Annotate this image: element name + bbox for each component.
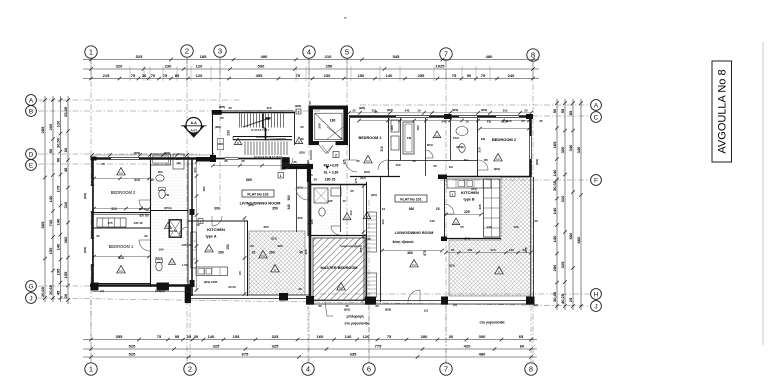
svg-text:20: 20 — [534, 219, 538, 223]
flat 102 label box — [242, 190, 274, 197]
column bottom x188 — [185, 284, 191, 303]
bathtub left flat — [151, 154, 171, 165]
svg-text:360: 360 — [409, 207, 415, 211]
svg-text:12 13 14 15 16 17 18 19: 12 13 14 15 16 17 18 19 — [254, 155, 283, 159]
svg-text:20: 20 — [318, 304, 322, 308]
svg-text:225: 225 — [464, 210, 470, 214]
svg-text:(A3)(2): (A3)(2) — [155, 289, 165, 293]
svg-text:280: 280 — [421, 334, 428, 339]
grid line row C right — [360, 115, 590, 117]
boxed num 1 living — [278, 173, 284, 179]
svg-text:2: 2 — [335, 153, 337, 157]
svg-text:675: 675 — [242, 351, 249, 356]
svg-text:(W2): (W2) — [134, 151, 141, 155]
svg-text:310: 310 — [503, 109, 508, 113]
svg-text:60: 60 — [250, 244, 254, 248]
door arc bedroom2 right — [478, 160, 488, 170]
svg-text:A: A — [29, 98, 34, 105]
svg-text:25: 25 — [187, 334, 192, 339]
kitchen A sink — [198, 269, 205, 275]
svg-text:(D8): (D8) — [299, 151, 304, 155]
svg-text:525: 525 — [136, 54, 143, 59]
svg-text:20: 20 — [63, 293, 68, 298]
svg-text:M: M — [237, 141, 239, 145]
door arc master — [355, 237, 366, 248]
wall master top bath — [311, 184, 367, 186]
svg-text:(D3): (D3) — [449, 264, 454, 268]
svg-text:25: 25 — [224, 159, 228, 163]
svg-text:30: 30 — [449, 334, 454, 339]
wall living102 right — [307, 160, 309, 236]
svg-text:25: 25 — [309, 173, 313, 177]
svg-text:35: 35 — [293, 160, 297, 164]
svg-text:MASTER BEDROOM: MASTER BEDROOM — [321, 266, 358, 270]
svg-text:25: 25 — [352, 109, 356, 113]
kitchen B cabinet strip — [484, 179, 500, 237]
svg-text:M: M — [366, 215, 368, 219]
bath tiles right flat — [427, 119, 450, 159]
svg-text:(D2): (D2) — [360, 176, 365, 180]
door arc bedroom1 right — [378, 160, 388, 170]
wall living101 bottom zone — [380, 301, 444, 303]
column left flat bottom-left — [91, 283, 99, 291]
grid circle 8 bottom — [525, 363, 537, 375]
bottom extension lines — [91, 300, 531, 362]
svg-text:(D3): (D3) — [271, 237, 276, 241]
svg-text:7: 7 — [444, 365, 448, 374]
svg-text:25: 25 — [356, 159, 360, 163]
veranda right edge — [533, 177, 535, 302]
svg-text:215: 215 — [103, 73, 110, 78]
door arc bedroom2 left — [139, 200, 150, 211]
grid circle F right — [591, 175, 602, 186]
interior dim chain veranda right horizontal — [444, 248, 533, 254]
section marker A-A — [181, 118, 207, 138]
svg-text:θέση τζακιού: θέση τζακιού — [392, 240, 413, 244]
svg-text:στο γυψοσανίδα: στο γυψοσανίδα — [479, 321, 504, 325]
svg-text:120: 120 — [381, 219, 385, 224]
wall corridor x380 — [380, 176, 382, 302]
grid line row F right — [440, 179, 590, 181]
bottom wall middle section — [191, 294, 311, 296]
wall bath column left — [187, 156, 189, 287]
svg-text:(W5): (W5) — [219, 105, 226, 109]
svg-text:SL + 2,60: SL + 2,60 — [324, 170, 339, 174]
svg-text:25: 25 — [568, 297, 573, 302]
svg-text:20: 20 — [367, 237, 371, 241]
wall left flat bottom — [90, 284, 192, 286]
wall right flat top — [349, 115, 531, 118]
svg-text:140: 140 — [552, 235, 557, 242]
interior dims scatter — [100, 101, 543, 308]
svg-text:(D5 16): (D5 16) — [140, 214, 149, 218]
section cut line — [262, 114, 264, 129]
svg-text:325: 325 — [560, 261, 565, 268]
svg-text:175: 175 — [354, 178, 358, 183]
wall bedroom divider left flat — [92, 212, 150, 214]
top extension line col 5 — [346, 58, 348, 80]
column bottom x526 — [526, 297, 535, 305]
svg-text:1025: 1025 — [436, 63, 446, 68]
svg-text:60: 60 — [520, 343, 525, 348]
grid line column 6 — [368, 200, 370, 363]
wall vertical x150 left flat — [150, 158, 152, 287]
svg-text:KA: KA — [496, 157, 500, 161]
master bedroom hatch — [313, 238, 365, 300]
svg-text:335: 335 — [350, 351, 357, 356]
svg-text:145: 145 — [310, 219, 314, 224]
boxed num 3 stairs — [296, 109, 301, 114]
svg-text:140: 140 — [55, 218, 60, 225]
grid line column 8 — [532, 61, 534, 363]
svg-text:135 16: 135 16 — [181, 243, 191, 247]
svg-text:15: 15 — [196, 223, 200, 227]
svg-text:180: 180 — [330, 118, 336, 122]
svg-text:155: 155 — [48, 247, 53, 254]
svg-text:95: 95 — [175, 334, 180, 339]
svg-text:180 25: 180 25 — [325, 177, 336, 181]
svg-text:25,45: 25,45 — [63, 106, 68, 117]
svg-text:AVGOULLA No 8: AVGOULLA No 8 — [717, 69, 729, 153]
svg-text:30,35: 30,35 — [552, 180, 557, 191]
top extension line col 3 — [219, 57, 221, 80]
svg-text:260: 260 — [218, 251, 224, 255]
grid circle A left — [26, 95, 37, 106]
svg-text:310: 310 — [111, 207, 117, 211]
svg-text:KA: KA — [435, 135, 439, 138]
grid circle H right — [591, 289, 602, 300]
svg-text:300: 300 — [214, 207, 220, 211]
svg-text:20,65: 20,65 — [48, 284, 53, 295]
flat 101 label box — [395, 195, 427, 202]
door arc kitchen A — [212, 216, 222, 226]
svg-text:KA: KA — [345, 216, 349, 220]
bath tiles left flat — [151, 170, 187, 210]
svg-text:25: 25 — [350, 189, 354, 193]
svg-text:315: 315 — [266, 106, 271, 110]
svg-text:310: 310 — [63, 201, 68, 208]
window gap right top wall 1 — [396, 116, 429, 118]
svg-text:(D2): (D2) — [297, 186, 302, 190]
svg-text:135 16: 135 16 — [133, 221, 143, 225]
svg-text:455: 455 — [256, 73, 263, 78]
bottom wall right section — [311, 300, 534, 302]
svg-text:490: 490 — [261, 54, 268, 59]
left dimension chain 2 — [48, 96, 55, 302]
svg-text:KA S: KA S — [155, 256, 162, 260]
svg-text:FLAT No 102: FLAT No 102 — [247, 192, 268, 196]
wall master right — [366, 236, 368, 302]
wall vertical x192 — [191, 158, 193, 296]
grid circle 2 top — [181, 45, 193, 57]
triangle KA bath right — [433, 131, 441, 137]
svg-text:(W2): (W2) — [481, 108, 488, 112]
svg-text:(W2): (W2) — [385, 308, 392, 312]
svg-text:(W6): (W6) — [215, 125, 221, 129]
svg-text:285: 285 — [277, 244, 282, 248]
top extension line col 7 — [445, 60, 447, 80]
svg-text:BEDROOM 1: BEDROOM 1 — [109, 244, 134, 249]
svg-text:660: 660 — [568, 232, 573, 239]
grid circle 5 top — [341, 46, 353, 58]
wall bath partition 4 — [477, 118, 479, 176]
svg-text:240: 240 — [441, 120, 446, 124]
top dimension row 3 — [83, 73, 539, 80]
triangle KA bedroom1 right — [364, 156, 373, 163]
triangle KA living 101 — [410, 260, 419, 267]
grid line row J left — [38, 298, 590, 306]
wall kitchen B bottom — [444, 238, 501, 240]
triangle KA master — [337, 283, 346, 290]
svg-text:20: 20 — [308, 101, 312, 105]
svg-text:85: 85 — [175, 73, 180, 78]
svg-text:350: 350 — [272, 207, 278, 211]
svg-text:255: 255 — [418, 73, 425, 78]
svg-text:(W1): (W1) — [83, 193, 87, 199]
svg-text:60: 60 — [238, 271, 242, 275]
svg-text:515: 515 — [490, 248, 495, 252]
svg-text:30: 30 — [194, 334, 199, 339]
svg-text:120: 120 — [176, 162, 181, 165]
svg-text:1295: 1295 — [211, 280, 218, 284]
column kitchen B bottom — [441, 237, 447, 242]
svg-text:KA: KA — [412, 263, 416, 267]
svg-text:60: 60 — [63, 147, 68, 152]
svg-text:LIVING/DINING ROOM: LIVING/DINING ROOM — [240, 201, 281, 206]
triangle KA bath left2 — [169, 258, 176, 264]
stair arrow — [243, 118, 270, 127]
grid circle B left — [26, 106, 37, 117]
column right flat top mid — [444, 114, 452, 119]
svg-text:(D2): (D2) — [364, 170, 370, 174]
svg-text:K: K — [498, 270, 500, 274]
svg-text:100: 100 — [395, 163, 400, 167]
wall master left — [309, 182, 312, 302]
svg-text:type B: type B — [464, 198, 475, 202]
svg-text:75: 75 — [481, 73, 486, 78]
svg-text:525: 525 — [129, 343, 136, 348]
grid line column 1 — [90, 58, 92, 363]
svg-text:KITCHEN: KITCHEN — [207, 227, 225, 232]
wall bedroom2 right bottom — [438, 176, 531, 178]
svg-text:360: 360 — [287, 195, 291, 201]
wall stairs left — [212, 112, 214, 158]
svg-text:LFT: LFT — [176, 158, 181, 161]
svg-text:325: 325 — [304, 249, 308, 254]
wall master bath divider — [340, 184, 342, 232]
svg-text:A-A: A-A — [191, 121, 198, 125]
svg-text:45: 45 — [63, 167, 68, 172]
svg-text:D: D — [29, 152, 34, 159]
triangle K veranda right — [495, 267, 504, 274]
bottom dimension row 3 — [83, 351, 537, 358]
column bottom x365 — [365, 297, 376, 305]
svg-text:230: 230 — [227, 130, 231, 136]
svg-text:11 10 9 8 7 6 5 4: 11 10 9 8 7 6 5 4 — [251, 129, 269, 132]
grid circle 7 bottom — [440, 363, 452, 375]
svg-text:30: 30 — [298, 287, 302, 291]
door arc veranda 101 — [408, 290, 420, 302]
svg-text:100: 100 — [349, 210, 353, 215]
svg-text:(W1): (W1) — [535, 159, 539, 165]
svg-text:BEDROOM 2: BEDROOM 2 — [111, 190, 136, 195]
svg-text:545: 545 — [393, 54, 400, 59]
svg-text:(D6): (D6) — [248, 203, 253, 207]
svg-text:type A: type A — [206, 235, 217, 239]
svg-text:10: 10 — [465, 120, 469, 124]
svg-text:30: 30 — [142, 73, 147, 78]
right dimension chain 3 — [568, 99, 575, 310]
svg-text:A: A — [594, 103, 599, 110]
grid line row G left — [38, 285, 200, 287]
svg-text:KA: KA — [261, 254, 265, 258]
svg-text:120: 120 — [196, 63, 203, 68]
svg-text:25: 25 — [300, 125, 304, 129]
veranda hatch middle — [249, 231, 305, 295]
column stairs left bottom — [210, 155, 216, 162]
svg-text:25: 25 — [524, 109, 528, 113]
svg-text:(W1): (W1) — [83, 247, 87, 253]
svg-text:230: 230 — [324, 73, 331, 78]
svg-text:25: 25 — [314, 177, 318, 181]
svg-text:340: 340 — [576, 146, 581, 153]
left dimension chain 3 — [55, 96, 62, 302]
svg-text:(2): (2) — [453, 303, 457, 307]
grid line column 7 — [445, 61, 447, 363]
svg-text:175: 175 — [55, 185, 60, 192]
kitchen B counter top — [447, 179, 491, 188]
top dimension row 1 — [83, 54, 539, 61]
svg-text:7: 7 — [444, 50, 448, 59]
svg-text:185: 185 — [200, 54, 207, 59]
wall bath partition 3 — [450, 118, 452, 160]
door arc entry 101 — [345, 160, 357, 172]
window gap right wall — [530, 136, 532, 159]
svg-text:140: 140 — [552, 169, 557, 176]
svg-text:200: 200 — [317, 123, 321, 128]
interior dim chain master vertical — [362, 184, 366, 302]
svg-text:325: 325 — [213, 343, 220, 348]
svg-text:20 20: 20 20 — [228, 285, 236, 289]
bathtub right flat — [403, 122, 414, 154]
svg-text:J: J — [594, 304, 597, 311]
sink left flat — [156, 175, 164, 181]
svg-text:D5A: D5A — [427, 143, 434, 147]
svg-text:55: 55 — [460, 225, 464, 229]
svg-text:BEDROOM 2: BEDROOM 2 — [492, 137, 517, 142]
svg-text:H: H — [594, 292, 599, 299]
master bath fixtures — [319, 208, 325, 216]
grid circle J left — [26, 293, 37, 304]
svg-text:FFL+3,05: FFL+3,05 — [324, 164, 339, 168]
stair treads upper flight — [242, 114, 284, 128]
elevator door swing — [319, 145, 333, 154]
wall right flat right — [529, 116, 532, 177]
svg-text:35: 35 — [433, 164, 437, 168]
svg-text:2: 2 — [188, 365, 192, 374]
kitchen B sink — [458, 181, 465, 187]
svg-text:90: 90 — [467, 73, 472, 78]
svg-text:665: 665 — [246, 178, 252, 182]
svg-text:20: 20 — [375, 304, 379, 308]
door arc master bath — [331, 226, 340, 235]
top extension line col 1 — [90, 58, 92, 80]
svg-text:J: J — [29, 296, 32, 303]
svg-text:KA: KA — [366, 159, 370, 163]
grid circle D left — [26, 149, 37, 160]
column stairs top left — [212, 110, 222, 115]
svg-text:KA: KA — [119, 171, 123, 175]
svg-text:25: 25 — [521, 119, 525, 123]
svg-text:245: 245 — [478, 204, 482, 209]
elevator cross brace — [315, 114, 341, 140]
svg-text:8: 8 — [529, 365, 533, 374]
svg-text:260: 260 — [269, 251, 275, 255]
triangle KA living 102 — [259, 251, 268, 258]
window gap left flat top wall — [111, 158, 139, 160]
svg-text:(W1): (W1) — [387, 108, 394, 112]
svg-text:C: C — [594, 115, 599, 122]
svg-text:165: 165 — [552, 141, 557, 148]
svg-text:325: 325 — [359, 247, 363, 252]
svg-text:K: K — [274, 268, 276, 272]
svg-text:180: 180 — [390, 125, 394, 130]
svg-text:140: 140 — [486, 225, 491, 229]
grid line column 5 — [346, 58, 348, 240]
master bath tiles — [313, 186, 341, 234]
column bottom x280 — [279, 293, 288, 301]
svg-text:93: 93 — [96, 234, 100, 238]
svg-text:230: 230 — [165, 63, 172, 68]
veranda hatch right — [449, 177, 531, 296]
grid line row E left — [38, 163, 200, 165]
column bottom x306 — [306, 296, 314, 305]
grid circle E left — [26, 160, 37, 171]
svg-text:340: 340 — [568, 144, 573, 151]
svg-text:10: 10 — [412, 159, 416, 163]
svg-text:525: 525 — [129, 351, 136, 356]
triangle K veranda mid — [271, 265, 280, 272]
svg-text:30,45: 30,45 — [552, 291, 557, 302]
page edge line — [762, 42, 764, 345]
svg-text:360: 360 — [407, 251, 413, 255]
svg-text:155: 155 — [233, 334, 240, 339]
elevator shaft — [309, 106, 349, 146]
wall left flat top — [92, 157, 212, 160]
svg-text:10: 10 — [417, 109, 421, 113]
bath divider left flat — [150, 210, 188, 212]
svg-text:120: 120 — [196, 73, 203, 78]
wall bedroom1 right — [388, 118, 390, 176]
svg-text:KA: KA — [119, 269, 123, 273]
svg-text:360: 360 — [63, 236, 68, 243]
right dimension chain 2 — [560, 99, 567, 310]
grid circle 8 top — [527, 49, 539, 61]
vent shaft dashed — [217, 139, 223, 144]
svg-text:775: 775 — [375, 343, 382, 348]
bottom dimension row 1 — [83, 334, 537, 341]
svg-text:160: 160 — [317, 334, 324, 339]
grid line column 4 — [308, 58, 310, 363]
triangle KA kitchen A — [205, 245, 214, 252]
svg-text:(W6): (W6) — [295, 104, 302, 108]
wall corridor x296 — [296, 169, 298, 232]
wall living102 top — [212, 158, 281, 160]
svg-text:140: 140 — [467, 248, 472, 252]
svg-text:40: 40 — [300, 137, 304, 141]
svg-text:25: 25 — [220, 116, 224, 120]
wall bedroom1 bottom left flat — [92, 283, 150, 285]
